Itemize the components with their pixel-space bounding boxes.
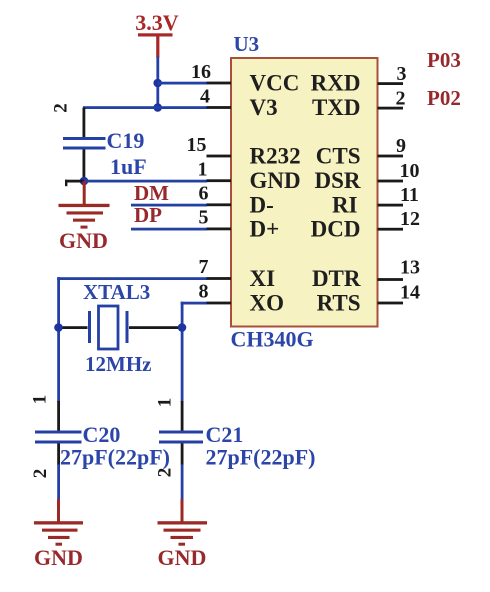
svg-text:RI: RI — [332, 193, 358, 218]
svg-text:DSR: DSR — [314, 168, 360, 193]
svg-text:1: 1 — [30, 395, 51, 405]
wire gnd net to pin1 — [84, 180, 207, 183]
svg-text:C20: C20 — [83, 422, 121, 447]
node VCC junction — [153, 79, 162, 88]
svg-text:7: 7 — [199, 256, 209, 278]
svg-text:R232: R232 — [250, 144, 301, 169]
svg-text:9: 9 — [396, 135, 406, 157]
svg-text:1: 1 — [198, 159, 208, 181]
svg-text:XO: XO — [250, 291, 285, 316]
svg-text:VCC: VCC — [250, 71, 300, 96]
svg-text:1: 1 — [155, 398, 176, 408]
svg-text:11: 11 — [400, 184, 419, 206]
wire gnd net stub left — [65, 180, 84, 187]
svg-text:2: 2 — [396, 88, 406, 110]
svg-text:D+: D+ — [250, 217, 280, 242]
svg-text:15: 15 — [187, 134, 207, 156]
svg-text:27pF(22pF): 27pF(22pF) — [206, 445, 316, 470]
wire DP net — [131, 228, 207, 231]
svg-text:6: 6 — [199, 183, 209, 205]
svg-text:V3: V3 — [250, 95, 278, 120]
wire XI net vertical — [57, 277, 60, 402]
svg-text:5: 5 — [199, 207, 209, 229]
svg-text:TXD: TXD — [312, 95, 361, 120]
svg-text:GND: GND — [34, 545, 83, 570]
pins left stubs — [207, 82, 232, 305]
wire XI net horizontal — [57, 277, 207, 280]
op IC U3 body — [231, 58, 378, 327]
capacitor C21 — [155, 398, 316, 500]
svg-text:XTAL3: XTAL3 — [83, 280, 150, 304]
pin numbers right — [396, 63, 421, 304]
svg-text:GND: GND — [158, 545, 207, 570]
wire pin4 net — [83, 106, 207, 109]
svg-text:P02: P02 — [427, 86, 461, 110]
node GND-net junction — [80, 177, 89, 186]
wire 3.3V vertical — [156, 57, 159, 109]
svg-text:10: 10 — [400, 160, 420, 182]
ground under C21 — [158, 499, 208, 570]
svg-text:D-: D- — [250, 193, 274, 218]
svg-text:27pF(22pF): 27pF(22pF) — [60, 445, 170, 470]
svg-text:P03: P03 — [427, 48, 461, 72]
svg-text:DP: DP — [134, 203, 162, 227]
node XI junction — [54, 323, 63, 332]
svg-text:RXD: RXD — [311, 71, 361, 96]
capacitor C20 — [30, 395, 171, 500]
svg-text:3: 3 — [397, 63, 407, 85]
svg-text:12: 12 — [400, 208, 420, 230]
node V3 junction — [153, 103, 162, 112]
svg-text:2: 2 — [155, 468, 176, 478]
wire pin16 net — [158, 82, 207, 85]
svg-text:13: 13 — [400, 257, 420, 279]
svg-text:12MHz: 12MHz — [85, 352, 151, 376]
pin numbers left — [187, 61, 212, 303]
svg-text:8: 8 — [199, 281, 209, 303]
crystal XTAL3 — [59, 280, 181, 376]
svg-text:GND: GND — [59, 228, 108, 253]
capacitor C19 — [51, 103, 147, 181]
svg-text:2: 2 — [30, 469, 51, 479]
svg-text:3.3V: 3.3V — [135, 10, 179, 35]
svg-text:C21: C21 — [206, 422, 244, 447]
pin names right column — [311, 71, 361, 316]
svg-text:16: 16 — [191, 61, 211, 83]
wire XO net horizontal — [181, 302, 208, 305]
svg-text:4: 4 — [200, 86, 210, 108]
pins right stubs — [378, 82, 404, 304]
svg-text:DCD: DCD — [311, 217, 361, 242]
svg-text:C19: C19 — [107, 128, 145, 153]
svg-text:GND: GND — [250, 168, 301, 193]
node XO junction — [178, 323, 187, 332]
svg-text:CTS: CTS — [316, 144, 361, 169]
pin names left column — [250, 71, 301, 316]
ground under C19 — [59, 181, 110, 253]
svg-text:DM: DM — [134, 181, 169, 205]
ground under C20 — [34, 499, 83, 570]
svg-text:DTR: DTR — [312, 266, 361, 291]
svg-text:14: 14 — [400, 282, 420, 304]
power 3.3V — [135, 10, 179, 58]
wire DM net — [131, 204, 207, 207]
svg-text:1uF: 1uF — [110, 154, 147, 179]
svg-text:XI: XI — [250, 266, 276, 291]
wire XO net vertical — [181, 302, 184, 402]
svg-text:RTS: RTS — [317, 291, 361, 316]
svg-text:CH340G: CH340G — [231, 327, 314, 352]
svg-text:U3: U3 — [234, 32, 260, 56]
svg-text:2: 2 — [51, 103, 72, 113]
